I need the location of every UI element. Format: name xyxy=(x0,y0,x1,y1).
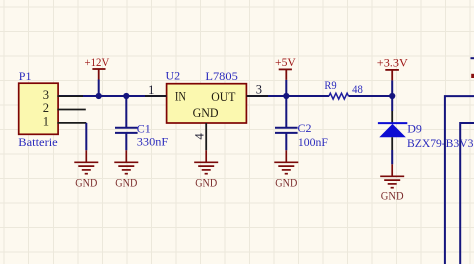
wire fragment top right xyxy=(471,57,474,59)
power bar fragment top right xyxy=(471,74,474,78)
svg-text:U2: U2 xyxy=(166,69,181,83)
wire +5V to net xyxy=(285,80,287,96)
wire net to D9 xyxy=(391,96,393,111)
svg-text:1: 1 xyxy=(43,115,49,129)
ground under C1 xyxy=(114,150,138,173)
svg-text:D9: D9 xyxy=(407,122,422,136)
svg-text:GND: GND xyxy=(195,178,217,190)
wire: R9 right to D9 node xyxy=(349,95,393,97)
wire net to C1 xyxy=(125,96,127,127)
svg-text:48: 48 xyxy=(352,82,363,96)
P1 pin 3 xyxy=(57,95,83,97)
regulator U2 xyxy=(167,84,247,123)
junction B xyxy=(123,93,129,99)
svg-text:BZX79-B3V3: BZX79-B3V3 xyxy=(407,136,473,150)
svg-text:IN: IN xyxy=(175,90,186,104)
U2 pin 4 xyxy=(205,123,207,150)
svg-text:GND: GND xyxy=(115,178,137,190)
power +3.3V xyxy=(385,70,399,81)
wire C1 to ground xyxy=(125,134,127,151)
svg-text:100nF: 100nF xyxy=(298,135,328,149)
wire C2 to ground xyxy=(285,134,287,151)
capacitor C1 xyxy=(115,128,138,133)
svg-text:4: 4 xyxy=(193,133,207,140)
svg-text:Batterie: Batterie xyxy=(18,135,57,149)
capacitor C2 xyxy=(275,128,298,133)
svg-text:P1: P1 xyxy=(19,69,32,83)
svg-text:GND: GND xyxy=(381,190,404,202)
svg-text:L7805: L7805 xyxy=(205,69,237,83)
svg-text:330nF: 330nF xyxy=(137,135,169,149)
P1 pin 2 xyxy=(57,109,85,111)
wire: U2 OUT to R9 left xyxy=(246,95,329,97)
wire +3.3V to net xyxy=(391,80,393,96)
svg-text:GND: GND xyxy=(193,106,219,120)
svg-text:C1: C1 xyxy=(137,121,151,135)
svg-text:GND: GND xyxy=(75,178,97,190)
diode D9 xyxy=(378,111,407,150)
resistor R9 xyxy=(329,93,349,99)
svg-text:OUT: OUT xyxy=(211,90,235,104)
connector P1 xyxy=(19,83,58,134)
U2 pin 3 xyxy=(246,95,268,97)
wire +12V to net xyxy=(98,80,100,97)
sheet symbol outer edge xyxy=(445,96,474,264)
svg-text:GND: GND xyxy=(275,178,297,190)
ground under D9 xyxy=(380,164,404,187)
ground under C2 xyxy=(274,150,298,173)
wire net to C2 xyxy=(285,96,287,127)
svg-text:3: 3 xyxy=(43,88,49,102)
junction C xyxy=(283,93,289,99)
power +5V xyxy=(279,69,292,80)
svg-text:3: 3 xyxy=(256,83,262,97)
sheet symbol inner edge xyxy=(460,123,474,264)
junction A xyxy=(96,93,102,99)
wire: main net P1 pin3 to U2 IN xyxy=(57,95,166,97)
ground under P1 pin1 xyxy=(74,150,98,173)
wire P1 pin1 to ground xyxy=(85,123,87,150)
P1 pin 1 xyxy=(57,122,86,124)
svg-text:C2: C2 xyxy=(298,121,312,135)
svg-text:2: 2 xyxy=(43,101,49,115)
wire D9 to ground xyxy=(391,150,393,164)
U2 pin 1 xyxy=(145,95,167,97)
svg-text:R9: R9 xyxy=(324,78,336,92)
power +12V xyxy=(92,69,105,80)
ground under U2 pin 4 xyxy=(194,150,218,173)
svg-text:1: 1 xyxy=(148,83,154,97)
svg-text:+5V: +5V xyxy=(275,55,296,69)
junction D xyxy=(389,93,395,99)
svg-text:+3.3V: +3.3V xyxy=(377,56,408,70)
svg-text:+12V: +12V xyxy=(85,55,110,69)
